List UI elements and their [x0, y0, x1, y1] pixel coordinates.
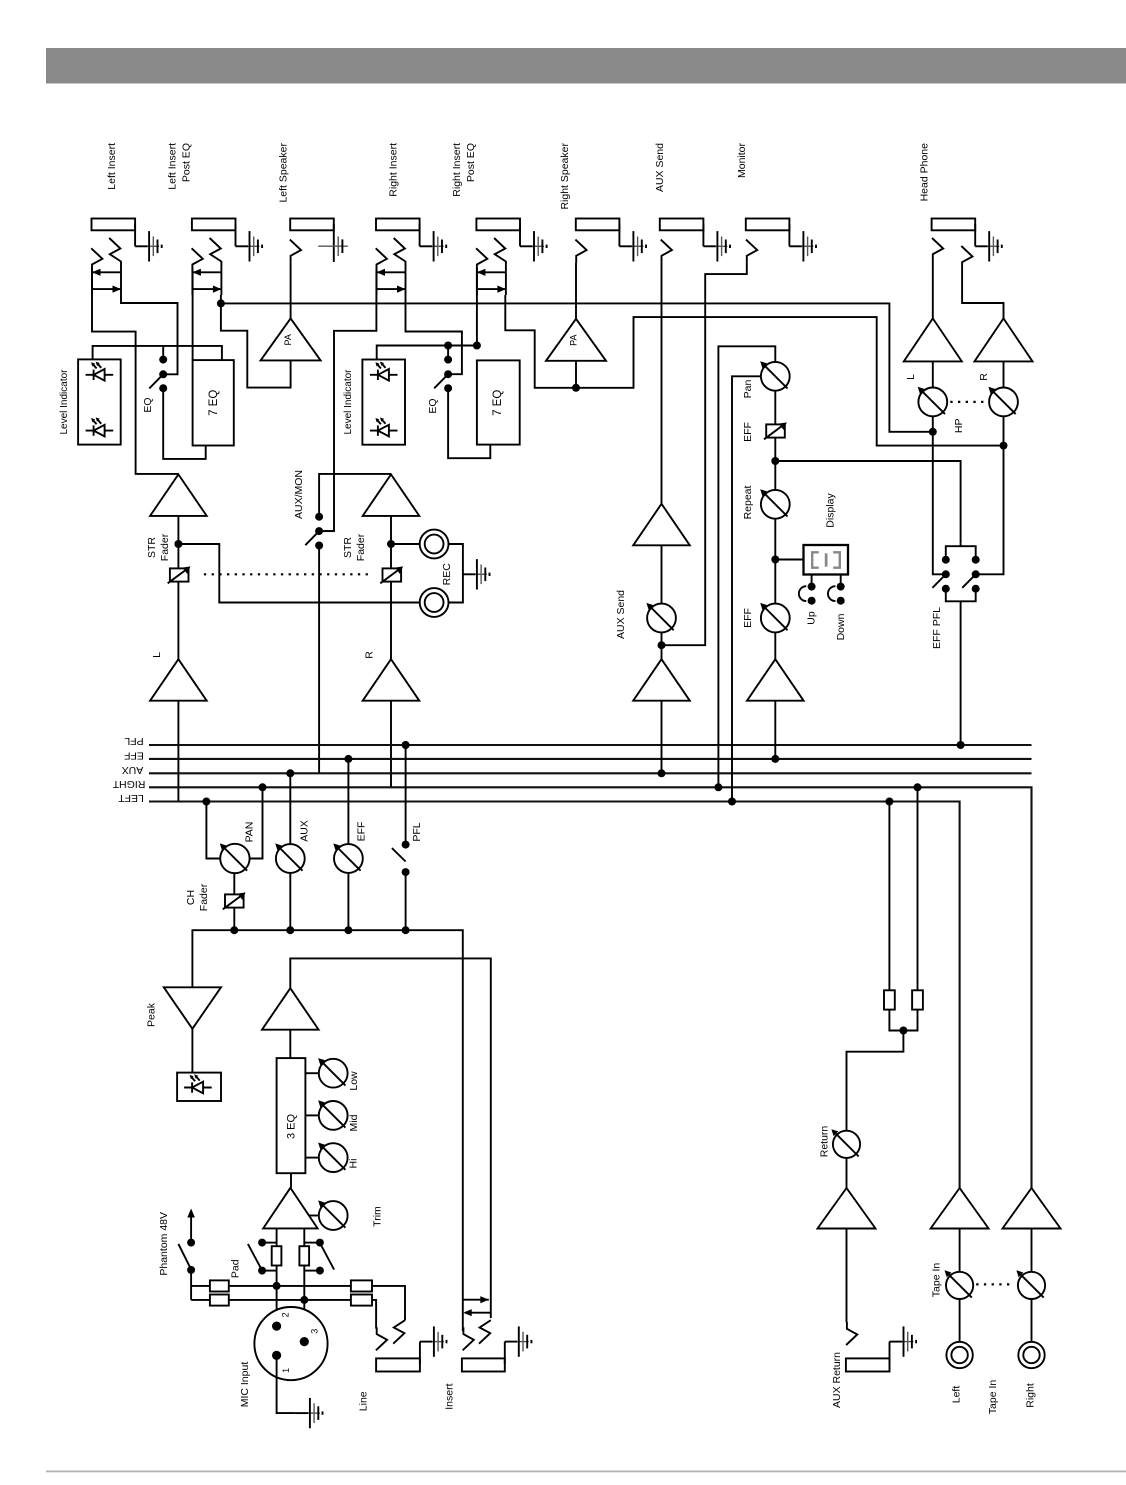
bus AUX [149, 772, 1032, 774]
wire EFF amp to EFF bus [774, 701, 776, 759]
knob PAN [220, 843, 250, 873]
wire right leg to rail2 [303, 1266, 305, 1342]
wire R amp to RIGHT bus [390, 701, 392, 788]
svg-text:R: R [364, 651, 376, 659]
node AUX monitor tap [658, 641, 666, 649]
knob Trim [318, 1200, 348, 1230]
svg-text:AUX Return: AUX Return [831, 1352, 843, 1408]
wire return knob to amp [846, 1158, 848, 1188]
wire PA left output to Left Speaker jack [290, 303, 292, 318]
svg-text:Monitor: Monitor [736, 143, 748, 179]
wire PFL bus to PFL switch [405, 745, 407, 845]
op-amp HP right [975, 318, 1033, 361]
svg-text:7 EQ: 7 EQ [492, 390, 504, 416]
wire rail2 to line jack ring [372, 1300, 376, 1329]
XLR pin 3 [300, 1337, 309, 1346]
wire tape R knob to RCA [1031, 1299, 1033, 1342]
node EFF knob to EFF bus [344, 755, 352, 763]
svg-text:Left Insert: Left Insert [167, 143, 179, 190]
wire STR R fader to R amp [390, 582, 392, 659]
knob Repeat [760, 489, 789, 519]
svg-text:3 EQ: 3 EQ [286, 1114, 298, 1140]
ground Insert jack [505, 1326, 532, 1356]
svg-text:Level Indicator: Level Indicator [59, 369, 70, 435]
XLR pin 1 [272, 1351, 281, 1360]
node HP R from line B [1000, 442, 1008, 450]
node A-line left channel EQ feed [93, 346, 222, 360]
wire HP R amp to knob [1003, 361, 1005, 387]
node PA right input [572, 384, 580, 392]
op-amp PA left [261, 318, 321, 360]
svg-text:EFF: EFF [124, 750, 144, 762]
wire HP R knob to EFF PFL pole [976, 416, 1004, 574]
knob Low [318, 1058, 348, 1088]
fader CH [223, 892, 246, 909]
knob Mid [318, 1100, 348, 1130]
resistor mic leg right [299, 1246, 309, 1265]
svg-text:1: 1 [281, 1368, 291, 1373]
svg-text:Return: Return [818, 1126, 830, 1158]
svg-text:Right: Right [1024, 1383, 1036, 1408]
wire EFF fader to repeat [774, 438, 776, 490]
wire EFF knob to channel node [347, 873, 349, 930]
knob Tape In right [1016, 1270, 1045, 1299]
svg-text:Tape In: Tape In [930, 1263, 942, 1298]
wire PFL switch to channel node [405, 872, 407, 930]
connector XLR MIC Input [254, 1307, 327, 1380]
jack Line [376, 1327, 387, 1350]
wire STR R amp out to AUXMON top contact [319, 474, 391, 517]
wire CH fader to channel node [233, 908, 235, 930]
svg-text:EQ: EQ [427, 398, 439, 413]
wire J2 send from 7EQ [192, 271, 194, 360]
box Peak LED [177, 1073, 221, 1101]
node HP L from line A [929, 428, 937, 436]
wire stub Hi knob [305, 1157, 318, 1159]
svg-text:Tape In: Tape In [987, 1380, 999, 1415]
resistor phantom rail1 left [210, 1280, 229, 1291]
svg-text:Trim: Trim [371, 1206, 383, 1227]
svg-text:LEFT: LEFT [118, 792, 144, 804]
wire tape L knob to RCA [959, 1299, 961, 1342]
wire HP L amp to knob [932, 361, 934, 387]
svg-text:Right Speaker: Right Speaker [559, 143, 571, 210]
jack Insert channel [463, 1327, 474, 1350]
op-amp HP left [904, 318, 962, 361]
LED symbols in left level indicator [86, 362, 114, 381]
ground REC [463, 559, 490, 589]
wire J3 return to EQ switch right [406, 295, 462, 374]
ground Line jack [420, 1326, 447, 1356]
svg-text:3: 3 [310, 1329, 320, 1334]
wire REC tap right to REC top [391, 543, 420, 545]
knob AUX channel [275, 843, 304, 872]
svg-text:Left: Left [950, 1386, 962, 1404]
wire J4 send from 7EQ right [476, 271, 478, 346]
node PFL switch to PFL bus [402, 741, 410, 749]
page header bar [46, 48, 1126, 84]
op-amp STR R booster [363, 474, 420, 516]
node PAN to RIGHT bus [259, 783, 267, 791]
wire preamp negative leg [276, 1228, 278, 1246]
svg-text:STR: STR [146, 537, 158, 558]
wire pan to EFF fader [774, 391, 776, 426]
op-amp PA right [546, 319, 606, 361]
node LEFT bus to return resistor [885, 798, 893, 806]
wire stub Low knob [305, 1072, 318, 1074]
wire AUXMON common to monitor select line [319, 530, 334, 532]
switch PFL channel [402, 841, 410, 849]
wire J1 send from STR L amp [92, 271, 178, 474]
node STR R REC tap [387, 540, 395, 548]
box Level Indicator right [362, 360, 405, 445]
op-amp AUX send master [633, 504, 690, 546]
bus LEFT [149, 802, 960, 1189]
wire XLR pin1 to ground [277, 1355, 296, 1413]
wire RIGHT bus to resistor R [917, 787, 919, 990]
jack J5 Left Speaker [290, 219, 348, 263]
resistor mic leg left [272, 1246, 282, 1265]
wire EQ R bypass to 7EQ output [448, 388, 490, 458]
wire EFF pan to LEFT bus [732, 376, 761, 801]
knob Hi [318, 1143, 348, 1173]
switch EQ right [444, 356, 452, 364]
wire rail2 middle [229, 1299, 351, 1301]
svg-text:AUX: AUX [122, 764, 144, 776]
jack J7 AUX Send [660, 219, 704, 247]
wire EFF pan to RIGHT bus [718, 346, 775, 787]
resistor return left [884, 990, 895, 1009]
wire insert left contact [462, 1325, 464, 1331]
resistor phantom rail2 left [210, 1295, 229, 1306]
dotted gang HP knobs [950, 401, 986, 403]
wire repeat to EFF knob [774, 519, 776, 604]
wire HP right feed [962, 269, 1003, 318]
svg-text:Mid: Mid [348, 1114, 360, 1131]
wire LEFT bus to resistor L [888, 802, 890, 991]
op-amp STR L booster [150, 474, 207, 516]
svg-text:Peak: Peak [145, 1002, 157, 1027]
node AUX knob to AUX bus [286, 769, 294, 777]
wire preamp positive leg [303, 1228, 305, 1246]
digit seven segment [812, 552, 840, 567]
svg-text:REC: REC [441, 563, 453, 586]
svg-text:EFF: EFF [742, 608, 754, 628]
op-amp EFF bus amp [747, 659, 804, 701]
wire PAN to RIGHT bus [250, 787, 263, 858]
svg-text:Phantom 48V: Phantom 48V [158, 1212, 170, 1276]
svg-text:Hi: Hi [348, 1159, 360, 1169]
node EFF PFL tap [771, 457, 779, 465]
jack J2 Left Insert Post EQ [192, 219, 236, 247]
svg-text:Repeat: Repeat [742, 485, 754, 519]
svg-text:Head Phone: Head Phone [919, 143, 931, 202]
svg-text:Post EQ: Post EQ [465, 143, 477, 182]
op-amp EQ output [262, 988, 319, 1029]
wire HP L knob to EFF PFL pole [933, 416, 946, 574]
wire STR R amp to fader [390, 516, 392, 568]
svg-text:Post EQ: Post EQ [181, 143, 193, 182]
wire phantom feed to rails [190, 1270, 192, 1300]
wire AUX bus to AUX knob [289, 773, 291, 844]
svg-text:AUX: AUX [298, 820, 310, 842]
op-amp AUX return [818, 1188, 876, 1229]
wire peak amp to LED box [191, 1029, 193, 1073]
svg-text:Down: Down [835, 613, 847, 640]
jack J1 Left Insert [92, 219, 136, 247]
svg-text:Left Insert: Left Insert [106, 143, 118, 190]
svg-text:R: R [978, 373, 990, 381]
svg-text:Line: Line [358, 1391, 370, 1411]
svg-text:7 EQ: 7 EQ [208, 390, 220, 416]
svg-text:EFF: EFF [356, 822, 368, 842]
knob HP L [918, 387, 947, 417]
op-amp mic preamp [263, 1188, 317, 1229]
svg-text:EFF: EFF [742, 422, 754, 442]
ground MIC [296, 1398, 323, 1428]
wire STR L amp to fader [177, 516, 179, 568]
wire AUX amp2 to AUX bus [661, 701, 663, 774]
svg-text:PA: PA [568, 335, 578, 346]
wire rail1 to line jack tip [372, 1286, 405, 1320]
svg-text:PAN: PAN [243, 822, 255, 843]
ground AUX Return [890, 1326, 917, 1356]
svg-text:PA: PA [283, 334, 293, 345]
svg-text:Right Insert: Right Insert [451, 143, 463, 197]
knob EFF channel [333, 843, 363, 872]
svg-text:Insert: Insert [444, 1383, 456, 1409]
node RIGHT bus to return resistor [914, 783, 922, 791]
svg-text:STR: STR [342, 537, 354, 558]
fader STR L [168, 566, 191, 583]
bus RIGHT [149, 787, 1032, 1188]
fader STR R [380, 566, 403, 583]
svg-text:L: L [905, 374, 917, 380]
wire display tap [775, 559, 803, 561]
wire J4 return to PA right and line-B [505, 295, 1003, 446]
wire stub Mid knob [305, 1114, 318, 1116]
svg-text:Level Indicator: Level Indicator [343, 369, 354, 435]
wire EFF knob to amp [774, 632, 776, 659]
svg-text:EFF PFL: EFF PFL [931, 607, 943, 649]
jack J8 Monitor [746, 219, 790, 247]
svg-text:RIGHT: RIGHT [112, 778, 145, 790]
jack RCA tape right [1018, 1342, 1044, 1368]
svg-text:PFL: PFL [411, 822, 423, 841]
box 3 EQ [277, 1058, 306, 1173]
wire EFF PFL to PFL bus [960, 601, 962, 745]
resistor line rail2 right [351, 1295, 372, 1306]
wire LEFT bus to PAN [206, 802, 220, 859]
knob EFF Pan [760, 361, 789, 390]
resistor return right [912, 990, 923, 1009]
fader EFF return [764, 422, 787, 439]
wire sum to return knob [847, 1031, 904, 1131]
svg-text:Left Speaker: Left Speaker [278, 143, 290, 203]
jack REC RCA top [420, 530, 449, 559]
box Display [804, 545, 849, 575]
knob AUX Send master [646, 603, 675, 632]
svg-text:EQ: EQ [142, 397, 154, 412]
node J2 return junction on A-line [217, 299, 225, 307]
knob Tape In left [945, 1270, 974, 1299]
op-amp R master [363, 659, 420, 701]
jack J4 Right Insert Post EQ [476, 219, 520, 247]
wire J1 return to EQ switch [121, 295, 178, 374]
jack REC RCA bottom [420, 588, 449, 617]
svg-text:Pan: Pan [742, 380, 754, 399]
arrows insert normal path [463, 1299, 489, 1301]
svg-text:Up: Up [805, 611, 817, 625]
bus PFL [149, 744, 1032, 746]
box 7 EQ right [477, 360, 520, 444]
LED peak symbol [184, 1074, 212, 1093]
svg-text:Low: Low [348, 1071, 360, 1091]
wire PA right input [575, 360, 577, 387]
knob HP R [988, 387, 1017, 417]
button Up [811, 575, 813, 587]
wire EFF bus to EFF knob [347, 759, 349, 844]
node display tap [771, 556, 779, 564]
wire PA right output to Right Speaker jack [575, 263, 577, 319]
op-amp Peak detector [164, 987, 221, 1029]
wire REC tap left to REC bottom [178, 544, 419, 603]
switch Pad right [316, 1239, 324, 1247]
wire EQ amp input from 3EQ box [289, 1030, 291, 1058]
jack J9 Head Phone stereo [932, 219, 976, 247]
wire left leg to rail1 [276, 1266, 278, 1327]
wire tape R amp to knob [1031, 1229, 1033, 1272]
stub EQ switch L top contact [162, 346, 164, 360]
op-amp AUX bus amp [633, 659, 690, 701]
jack J3 Right Insert [376, 219, 420, 247]
wire rail1 middle [229, 1285, 351, 1287]
node STR L REC tap [174, 540, 182, 548]
node A-line right channel EQ feed [377, 346, 477, 360]
svg-text:2: 2 [280, 1312, 290, 1317]
svg-text:PFL: PFL [124, 735, 143, 747]
wire EQ amp out to insert send [290, 958, 491, 1318]
button Down [840, 575, 842, 587]
svg-text:AUX/MON: AUX/MON [293, 470, 305, 519]
wire J3 send to MON line [319, 271, 376, 531]
wire STR L fader to L amp [177, 582, 179, 659]
XLR pin 2 [272, 1322, 281, 1331]
wire AUX knob to amp2 [661, 632, 663, 659]
svg-text:L: L [151, 652, 163, 658]
svg-text:Display: Display [824, 493, 836, 528]
svg-text:HP: HP [953, 419, 965, 434]
svg-text:AUX Send: AUX Send [615, 590, 627, 639]
switch Pad left [258, 1239, 266, 1247]
wire monitor pickup from AUX master [662, 263, 747, 646]
jack J6 Right Speaker [576, 219, 620, 247]
node PAN to LEFT bus [202, 798, 210, 806]
wire AUX knob to channel node [289, 873, 291, 930]
LED symbols in right level indicator [370, 362, 398, 381]
wire REC jacks to ground [449, 544, 463, 603]
wire L amp to LEFT bus [177, 701, 179, 802]
wire J2 return to PA left input [221, 303, 291, 387]
wire line-A post EQ left to headphones [221, 303, 933, 431]
knob Return [831, 1129, 860, 1158]
box 7 EQ left [193, 360, 234, 445]
svg-text:Pad: Pad [230, 1259, 242, 1278]
svg-text:MIC Input: MIC Input [239, 1362, 251, 1408]
wire EFF tap to EFF PFL switch [775, 461, 960, 543]
op-amp Tape In left [931, 1188, 989, 1229]
wire PAN down to CH fader [233, 873, 235, 895]
dotted gang STR faders [204, 573, 368, 575]
wire tape L amp to knob [959, 1229, 961, 1272]
resistor line rail1 right [351, 1280, 372, 1291]
switch EQ left [159, 356, 167, 364]
jack AUX Return [846, 1322, 857, 1345]
svg-text:Right Insert: Right Insert [388, 143, 400, 197]
wire rail1 pin2 phantom [191, 1285, 210, 1287]
svg-text:CH: CH [185, 890, 197, 905]
op-amp L master [150, 659, 207, 701]
wire resistor sum [889, 1010, 917, 1031]
knob EFF master [760, 603, 789, 632]
wire AUX send jack feed [661, 263, 663, 504]
wire EQ L bypass to 7EQ output [163, 388, 206, 459]
wire rail2 pin3 phantom [191, 1299, 210, 1301]
jack RCA tape left [946, 1342, 972, 1368]
op-amp Tape In right [1003, 1188, 1061, 1229]
switch AUX/MON [315, 513, 323, 521]
page footer rule [46, 1471, 1126, 1473]
svg-text:Fader: Fader [198, 883, 210, 911]
switch Phantom 48V [178, 1209, 195, 1274]
wire 3EQ box to mic preamp [290, 1173, 292, 1188]
wire HP left feed [932, 261, 934, 318]
wire AUXMON bottom to AUX bus [318, 546, 320, 774]
box Level Indicator left [78, 359, 121, 444]
switch EFF PFL dual [946, 546, 976, 560]
wire preamp to Trim knob [309, 1215, 319, 1217]
dotted gang tape knobs [976, 1283, 1012, 1285]
wire channel bus (post insert) [192, 930, 462, 1325]
bus EFF [149, 758, 1032, 760]
stub EQ switch R top contact [447, 346, 449, 360]
svg-text:Fader: Fader [159, 533, 171, 561]
svg-text:Fader: Fader [355, 533, 367, 561]
svg-text:AUX Send: AUX Send [654, 143, 666, 192]
wire AUX amp1 to knob [661, 545, 663, 604]
wire return amp to jack [846, 1229, 848, 1323]
wire EFF PFL top bar feed [960, 543, 962, 546]
